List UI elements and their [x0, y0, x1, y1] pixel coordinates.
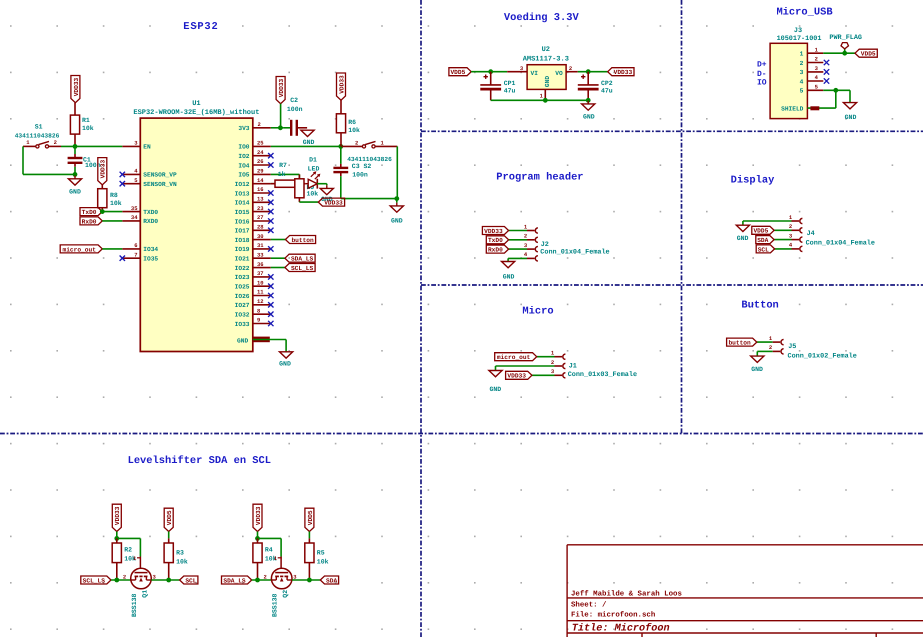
svg-text:S1: S1	[35, 124, 43, 131]
svg-text:SCL_LS: SCL_LS	[83, 577, 106, 584]
svg-text:2: 2	[789, 223, 792, 230]
wire chip gnd	[253, 339, 286, 341]
svg-text:28: 28	[257, 224, 264, 231]
svg-text:RxD0: RxD0	[488, 247, 503, 254]
svg-text:R8: R8	[110, 192, 118, 199]
capacitor CP1	[490, 72, 492, 85]
wire button gnd	[756, 351, 758, 356]
svg-text:GND: GND	[737, 235, 749, 242]
svg-text:SCL_LS: SCL_LS	[291, 265, 314, 272]
svg-text:10k: 10k	[307, 190, 319, 197]
net label VDD5 usb	[855, 49, 877, 57]
svg-text:9: 9	[257, 317, 260, 324]
svg-text:33: 33	[257, 251, 264, 258]
svg-text:J3: J3	[794, 27, 802, 35]
op-amp U1 left pins	[122, 145, 140, 147]
svg-text:34: 34	[131, 214, 138, 221]
svg-text:IO15: IO15	[235, 209, 250, 216]
svg-text:IO18: IO18	[235, 237, 250, 244]
svg-text:IO34: IO34	[143, 246, 158, 253]
net label RxD0 ph	[486, 245, 508, 253]
wire section divider horizontal 3	[0, 433, 923, 435]
svg-text:IO12: IO12	[235, 181, 250, 188]
svg-text:Program header: Program header	[496, 171, 583, 183]
op-amp U1	[140, 118, 253, 351]
svg-text:VDD5: VDD5	[307, 510, 314, 525]
svg-text:GND: GND	[583, 114, 595, 121]
svg-text:TXD0: TXD0	[143, 209, 158, 216]
svg-text:10k: 10k	[176, 559, 188, 566]
svg-text:ESP32-WROOM-32E_(16MB)_without: ESP32-WROOM-32E_(16MB)_without	[133, 108, 259, 117]
net label RxD0	[80, 217, 102, 225]
svg-text:GND: GND	[751, 366, 763, 373]
svg-text:IO35: IO35	[143, 256, 158, 263]
svg-text:RXD0: RXD0	[143, 218, 158, 225]
svg-text:VDD33: VDD33	[114, 506, 121, 525]
svg-text:Levelshifter SDA en SCL: Levelshifter SDA en SCL	[128, 455, 271, 467]
node junction S2 gnd	[394, 196, 399, 201]
svg-text:IO27: IO27	[235, 302, 250, 309]
wire usb vbus	[823, 52, 855, 54]
wire TxD0	[102, 211, 122, 213]
capacitor C2	[284, 127, 291, 129]
net label VDD5 disp	[752, 226, 774, 234]
connector J1	[537, 356, 555, 358]
svg-text:IO: IO	[757, 79, 767, 88]
wire IO12	[271, 183, 275, 185]
svg-text:24: 24	[257, 149, 264, 156]
svg-text:J4: J4	[807, 230, 815, 238]
svg-text:IO13: IO13	[235, 190, 250, 197]
node junction usb gnd	[833, 88, 838, 93]
svg-text:VDD33: VDD33	[73, 77, 80, 96]
svg-text:VDD5: VDD5	[166, 510, 173, 525]
svg-text:IO21: IO21	[235, 256, 250, 263]
resistor R1	[74, 103, 76, 115]
wire IO0	[271, 145, 341, 147]
svg-text:IO26: IO26	[235, 293, 250, 300]
ground micro	[495, 370, 497, 372]
wire VO	[566, 71, 578, 73]
svg-text:2: 2	[800, 60, 804, 67]
net label VDD33 mc	[506, 371, 532, 379]
svg-text:Micro_USB: Micro_USB	[776, 7, 833, 19]
svg-text:SENSOR_VN: SENSOR_VN	[143, 181, 177, 188]
svg-text:Q2: Q2	[282, 590, 289, 598]
svg-text:VDD5: VDD5	[861, 51, 876, 58]
wire C3 bottom	[341, 198, 398, 200]
svg-text:7: 7	[134, 251, 137, 258]
svg-text:VI: VI	[531, 70, 539, 77]
svg-text:SDA: SDA	[326, 577, 337, 584]
svg-text:10k: 10k	[82, 125, 94, 132]
svg-text:VDD33: VDD33	[338, 75, 345, 94]
ground LED	[326, 184, 328, 186]
svg-text:2: 2	[258, 121, 261, 128]
svg-text:VDD33: VDD33	[324, 200, 343, 207]
wire VDD5 to VI	[471, 71, 507, 73]
wire section divider horizontal 1	[421, 130, 923, 132]
connector J2	[509, 230, 527, 232]
wire section divider horizontal 2	[421, 284, 923, 286]
svg-text:GND: GND	[489, 386, 501, 393]
node junction CP2	[586, 69, 591, 74]
net label SCL_LS esp	[285, 264, 315, 272]
svg-text:GND: GND	[237, 338, 248, 345]
svg-text:Display: Display	[731, 174, 775, 186]
capacitor CP2	[587, 72, 589, 85]
svg-text:30: 30	[257, 233, 264, 240]
svg-text:Title: Microfoon: Title: Microfoon	[572, 622, 670, 634]
svg-text:13: 13	[257, 196, 264, 203]
wire R9 bottom	[299, 201, 318, 203]
svg-text:R5: R5	[317, 550, 325, 557]
nc usb	[824, 60, 829, 65]
svg-text:IO2: IO2	[238, 153, 249, 160]
svg-text:Conn_01x04_Female: Conn_01x04_Female	[806, 239, 875, 247]
wire display gnd	[742, 221, 744, 225]
wire section divider vertical left	[420, 0, 422, 637]
svg-text:SHIELD: SHIELD	[781, 106, 804, 113]
svg-text:BSS138: BSS138	[131, 593, 138, 617]
svg-text:IO32: IO32	[235, 312, 250, 319]
svg-text:VDD33: VDD33	[507, 373, 526, 380]
svg-text:GND: GND	[303, 139, 315, 146]
svg-text:U2: U2	[542, 46, 550, 54]
svg-text:GND: GND	[544, 76, 551, 87]
power flag	[844, 49, 846, 53]
svg-text:10: 10	[257, 279, 264, 286]
svg-text:IO19: IO19	[235, 246, 250, 253]
node junction vbus	[842, 51, 847, 56]
node junction rail	[543, 98, 548, 103]
wire S1 to EN	[61, 145, 122, 147]
wire gnd rail	[491, 99, 589, 101]
ground reg	[587, 99, 589, 101]
power label VDD33 C2	[276, 77, 285, 104]
svg-text:Conn_01x02_Female: Conn_01x02_Female	[788, 353, 857, 361]
svg-text:10k: 10k	[110, 200, 122, 207]
svg-text:100n: 100n	[287, 106, 303, 113]
node junction CP1	[488, 69, 493, 74]
svg-text:2: 2	[551, 359, 554, 366]
resistor R6	[340, 100, 342, 114]
svg-text:2: 2	[569, 65, 572, 72]
svg-text:VDD33: VDD33	[100, 160, 107, 179]
svg-text:IO25: IO25	[235, 284, 250, 291]
svg-text:2: 2	[815, 56, 818, 63]
wire usb gnd	[823, 89, 850, 91]
svg-text:SCL: SCL	[185, 577, 196, 584]
svg-text:23: 23	[257, 205, 264, 212]
svg-text:R3: R3	[176, 550, 184, 557]
ground S2	[396, 199, 398, 203]
net label SDA disp	[756, 236, 774, 244]
svg-text:VDD5: VDD5	[753, 228, 768, 235]
power label VDD33 R8	[98, 158, 107, 185]
wire IO5	[271, 173, 300, 175]
svg-text:1: 1	[800, 51, 804, 58]
svg-text:Q1: Q1	[141, 590, 148, 598]
wire 3V3	[271, 127, 284, 129]
svg-text:TxD0: TxD0	[82, 209, 97, 216]
svg-text:IO17: IO17	[235, 228, 250, 235]
svg-text:CP2: CP2	[601, 80, 613, 87]
net label micro_out	[60, 245, 102, 253]
connector J4	[743, 220, 792, 222]
led D1	[308, 179, 317, 188]
svg-text:U1: U1	[192, 100, 200, 108]
svg-text:ESP32: ESP32	[183, 21, 218, 33]
net label VDD5 in	[449, 68, 471, 76]
svg-text:J5: J5	[788, 343, 796, 351]
svg-text:2: 2	[769, 344, 772, 351]
wire S1 left down	[22, 146, 24, 174]
svg-text:Jeff Mabilde & Sarah Loos: Jeff Mabilde & Sarah Loos	[571, 589, 682, 598]
svg-text:1k: 1k	[278, 171, 286, 178]
net label button bt	[727, 338, 757, 346]
power label VDD33 R1	[71, 76, 80, 103]
svg-text:EN: EN	[143, 144, 151, 151]
svg-text:35: 35	[131, 205, 138, 212]
connector J5	[757, 341, 773, 343]
net label VDD33 ph	[482, 227, 508, 235]
svg-text:3V3: 3V3	[238, 125, 249, 132]
svg-text:R6: R6	[348, 119, 356, 126]
svg-text:2: 2	[355, 140, 358, 147]
svg-text:3: 3	[800, 69, 804, 76]
svg-text:Conn_01x03_Female: Conn_01x03_Female	[568, 371, 637, 379]
svg-text:VDD33: VDD33	[484, 228, 503, 235]
node junction C1 bottom	[73, 172, 78, 177]
svg-text:IO5: IO5	[238, 172, 249, 179]
net label SDA_LS esp	[285, 254, 315, 262]
svg-text:GND: GND	[69, 188, 81, 195]
net label micro_out mc	[495, 353, 537, 361]
connector J3 pins	[807, 52, 823, 54]
svg-text:GND: GND	[845, 114, 857, 121]
capacitor C1	[74, 146, 76, 154]
svg-text:IO16: IO16	[235, 218, 250, 225]
svg-text:SCL: SCL	[758, 246, 769, 253]
svg-text:File: microfoon.sch: File: microfoon.sch	[571, 610, 655, 619]
svg-text:14: 14	[257, 177, 264, 184]
svg-text:R7: R7	[279, 162, 287, 169]
svg-text:5: 5	[800, 88, 804, 95]
svg-text:IO23: IO23	[235, 274, 250, 281]
svg-text:J1: J1	[569, 362, 577, 370]
transistor Q2 levelshifter SDA	[253, 504, 262, 531]
node junction IO0	[338, 144, 343, 149]
svg-text:LED: LED	[308, 166, 320, 173]
svg-text:47u: 47u	[504, 88, 516, 95]
svg-text:GND: GND	[503, 273, 515, 280]
svg-text:100n: 100n	[352, 171, 368, 178]
ground usb	[849, 102, 851, 104]
wire RxD0	[102, 220, 122, 222]
svg-text:R2: R2	[124, 546, 132, 553]
svg-text:Micro: Micro	[522, 306, 553, 318]
node junction TxD0	[100, 209, 105, 214]
svg-text:29: 29	[257, 168, 264, 175]
svg-text:10k: 10k	[317, 559, 329, 566]
svg-text:VDD33: VDD33	[255, 506, 262, 525]
wire IO22	[271, 267, 285, 269]
svg-text:button: button	[728, 340, 751, 347]
net label button	[285, 236, 315, 244]
svg-text:R4: R4	[265, 546, 273, 553]
net label TxD0 ph	[486, 236, 508, 244]
svg-text:105017-1001: 105017-1001	[777, 35, 822, 43]
svg-text:Conn_01x04_Female: Conn_01x04_Female	[540, 248, 609, 256]
wire micro_out	[102, 248, 122, 250]
svg-text:BSS138: BSS138	[272, 593, 279, 617]
svg-text:CP1: CP1	[504, 80, 516, 87]
svg-text:RxD0: RxD0	[82, 218, 97, 225]
switch S2	[341, 145, 363, 147]
svg-text:16: 16	[257, 186, 264, 193]
resistor R9	[298, 174, 300, 178]
svg-text:IO14: IO14	[235, 200, 250, 207]
ground C2	[301, 130, 314, 136]
svg-text:SDA_LS: SDA_LS	[223, 577, 246, 584]
svg-text:button: button	[291, 237, 314, 244]
svg-text:37: 37	[257, 270, 264, 277]
svg-text:27: 27	[257, 214, 264, 221]
svg-text:S2: S2	[364, 163, 372, 170]
net label VDD33 reg	[608, 68, 634, 76]
ground chip	[285, 351, 287, 353]
svg-text:Voeding 3.3V: Voeding 3.3V	[504, 12, 580, 24]
node junction 3V3	[278, 125, 283, 130]
ground button	[756, 355, 758, 357]
svg-text:C3: C3	[352, 163, 360, 170]
wire IO21	[271, 257, 285, 259]
svg-text:47u: 47u	[601, 88, 613, 95]
svg-text:25: 25	[257, 140, 264, 147]
node junction EN	[73, 144, 78, 149]
resistor R8	[101, 185, 103, 189]
svg-text:36: 36	[257, 261, 264, 268]
svg-text:GND: GND	[391, 217, 403, 224]
svg-text:AMS1117-3.3: AMS1117-3.3	[523, 55, 569, 63]
svg-text:12: 12	[257, 298, 264, 305]
svg-text:VDD5: VDD5	[450, 69, 465, 76]
wire section divider vertical right	[681, 0, 683, 434]
svg-text:PWR_FLAG: PWR_FLAG	[829, 34, 862, 42]
svg-text:2: 2	[123, 574, 126, 581]
wire IO18	[271, 239, 286, 241]
svg-text:10k: 10k	[348, 127, 360, 134]
wire S2 right down	[396, 146, 398, 198]
svg-text:IO33: IO33	[235, 321, 250, 328]
svg-text:GND: GND	[279, 361, 291, 368]
connector J3	[770, 43, 807, 118]
svg-text:6: 6	[134, 242, 137, 249]
op-amp U1 right pins	[253, 127, 271, 129]
svg-text:11: 11	[257, 289, 264, 296]
svg-text:IO0: IO0	[238, 144, 249, 151]
transistor Q1 levelshifter SCL	[112, 504, 121, 531]
power label VDD33 R6	[337, 73, 346, 100]
svg-text:4: 4	[800, 78, 804, 85]
ground ph	[507, 261, 509, 263]
svg-text:SDA_LS: SDA_LS	[291, 256, 314, 263]
svg-text:VDD33: VDD33	[614, 69, 633, 76]
switch S1	[23, 145, 36, 147]
svg-text:D+: D+	[757, 61, 767, 70]
svg-text:micro_out: micro_out	[497, 354, 531, 361]
svg-text:31: 31	[257, 242, 264, 249]
svg-text:VDD33: VDD33	[278, 78, 285, 97]
svg-text:Sheet: /: Sheet: /	[571, 600, 607, 609]
wire LED gnd	[317, 183, 327, 185]
svg-text:IO4: IO4	[238, 162, 249, 169]
svg-text:R1: R1	[82, 117, 90, 124]
svg-text:Button: Button	[741, 300, 778, 312]
ground display	[742, 224, 744, 226]
svg-text:SDA: SDA	[757, 237, 768, 244]
svg-text:2: 2	[524, 233, 527, 240]
svg-text:26: 26	[257, 158, 264, 165]
svg-text:micro_out: micro_out	[62, 246, 96, 253]
svg-text:SENSOR_VP: SENSOR_VP	[143, 172, 177, 179]
resistor R7	[271, 183, 275, 185]
ground C1	[74, 174, 76, 175]
net label SCL disp	[756, 245, 774, 253]
svg-text:C2: C2	[290, 97, 298, 104]
wire micro gnd	[495, 366, 497, 371]
title block	[567, 544, 923, 546]
svg-text:TxD0: TxD0	[488, 237, 503, 244]
regulator U2	[527, 65, 566, 90]
net label TxD0	[80, 208, 102, 216]
svg-text:IO22: IO22	[235, 265, 250, 272]
power label VDD33 R9	[318, 198, 344, 206]
capacitor C3	[340, 146, 342, 164]
svg-text:2: 2	[54, 139, 57, 146]
svg-text:D1: D1	[309, 157, 317, 164]
svg-text:VO: VO	[555, 70, 563, 77]
svg-text:2: 2	[264, 574, 267, 581]
